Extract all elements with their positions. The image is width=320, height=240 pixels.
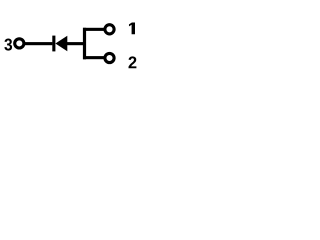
wire from pin 3 to diode cathode bbox=[24, 42, 53, 45]
pin label 1 bbox=[129, 23, 135, 35]
diode triangle (anode, pointing left) bbox=[55, 36, 67, 51]
pin label 3 bbox=[4, 39, 12, 51]
terminal circle pin 3 bbox=[15, 39, 24, 48]
wire branch to pin 2 bbox=[83, 56, 104, 59]
pin label 2 bbox=[129, 56, 137, 68]
terminal circle pin 1 bbox=[105, 25, 114, 34]
wire from diode anode to junction bbox=[67, 42, 85, 45]
vertical junction line bbox=[83, 28, 86, 60]
terminal circle pin 2 bbox=[105, 53, 114, 62]
wire branch to pin 1 bbox=[83, 28, 104, 31]
diode cathode bar bbox=[52, 36, 55, 52]
